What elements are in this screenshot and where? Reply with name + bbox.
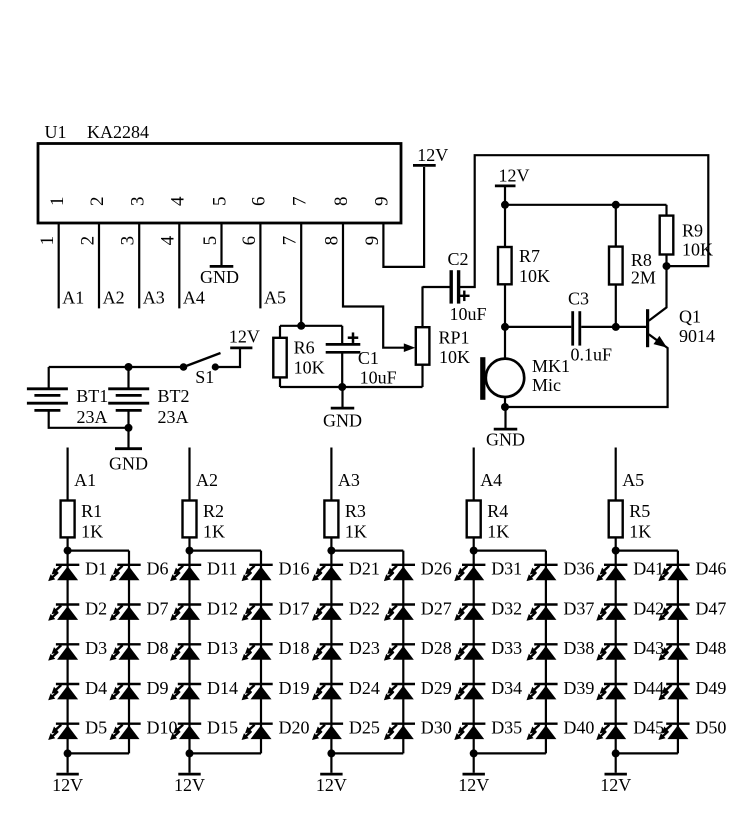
label R1 value 1K (81, 521, 103, 541)
svg-text:R9: R9 (682, 221, 703, 241)
label D32 (491, 598, 522, 618)
svg-text:D34: D34 (491, 678, 522, 698)
label D28 (421, 638, 452, 658)
junction R2 branches top (186, 547, 194, 555)
wire node A3 array (330, 448, 332, 501)
svg-text:D40: D40 (563, 718, 594, 738)
label R7 value 10K (519, 266, 550, 286)
svg-text:BT2: BT2 (158, 386, 190, 406)
wire node pin7 horizontal (280, 325, 342, 327)
junction branches bottom group 2 (186, 749, 194, 757)
svg-text:10K: 10K (439, 347, 470, 367)
label R6 value 10K (294, 358, 325, 378)
resistor R6 bottom lead (279, 377, 281, 387)
pin number 5 inside U1 (210, 197, 231, 207)
junction branches bottom group 5 (612, 749, 620, 757)
wire branch top group 3 (331, 549, 403, 551)
junction pin7 node (297, 322, 305, 330)
node A1 array label (74, 470, 96, 490)
svg-text:C3: C3 (568, 288, 589, 308)
svg-text:D1: D1 (85, 559, 107, 579)
svg-text:R6: R6 (294, 338, 315, 358)
svg-text:Q1: Q1 (679, 307, 701, 327)
svg-text:D15: D15 (207, 718, 238, 738)
LED D12 (170, 605, 201, 621)
label D4 (85, 678, 107, 698)
svg-text:GND: GND (109, 454, 148, 474)
wire branch top group 4 (474, 549, 546, 551)
svg-text:D21: D21 (349, 559, 380, 579)
wire left branch group 1 (66, 551, 68, 754)
svg-text:D5: D5 (85, 718, 107, 738)
wire pin 3 (138, 223, 140, 308)
svg-text:D46: D46 (695, 559, 726, 579)
svg-text:D20: D20 (279, 718, 310, 738)
svg-text:D19: D19 (279, 678, 310, 698)
node A5 (264, 287, 286, 307)
label R4 (487, 501, 508, 521)
svg-text:MK1: MK1 (532, 356, 570, 376)
svg-text:D39: D39 (563, 678, 594, 698)
svg-text:23A: 23A (158, 407, 189, 427)
pin number 6 inside U1 (249, 197, 270, 207)
label R3 (345, 501, 366, 521)
transistor Q1 collector (649, 266, 667, 321)
label R9 (682, 221, 703, 241)
wire right branch group 5 (677, 551, 679, 754)
LED D28 (384, 644, 415, 660)
label BT2 value 23A (158, 407, 189, 427)
svg-text:3: 3 (118, 236, 139, 246)
svg-text:7: 7 (280, 236, 301, 246)
LED D25 (312, 724, 343, 740)
LED D20 (242, 724, 273, 740)
svg-text:A5: A5 (622, 470, 644, 490)
node A2 array label (196, 470, 218, 490)
svg-text:KA2284: KA2284 (87, 122, 149, 142)
pin number 9 below U1 (362, 236, 383, 246)
LED D49 (659, 684, 690, 700)
svg-text:A1: A1 (74, 470, 96, 490)
wire left branch group 2 (188, 551, 190, 754)
label D38 (563, 638, 594, 658)
resistor R8 bottom lead (615, 285, 617, 327)
label D21 (349, 559, 380, 579)
label RP1 value 10K (439, 347, 470, 367)
svg-text:4: 4 (158, 235, 179, 245)
microphone MK1 top lead (504, 327, 506, 359)
battery BT2 top lead (127, 367, 129, 388)
label D24 (349, 678, 380, 698)
LED D24 (312, 684, 343, 700)
LED D26 (384, 565, 415, 581)
pin number 4 below U1 (158, 235, 179, 245)
svg-text:D42: D42 (633, 598, 664, 618)
svg-text:R4: R4 (487, 501, 508, 521)
label R5 (629, 501, 650, 521)
svg-text:2: 2 (77, 236, 98, 246)
resistor R1 bottom lead (66, 537, 68, 550)
node A4 (183, 287, 205, 307)
label MK1 (532, 356, 570, 376)
label R5 value 1K (629, 521, 651, 541)
svg-text:BT1: BT1 (76, 386, 108, 406)
svg-text:C1: C1 (358, 348, 379, 368)
wire branch bottom group 3 (331, 752, 403, 754)
svg-text:3: 3 (127, 197, 148, 207)
LED D41 (596, 565, 627, 581)
label D13 (207, 638, 238, 658)
svg-text:U1: U1 (45, 122, 67, 142)
pin number 1 below U1 (37, 236, 58, 246)
svg-text:1: 1 (37, 236, 58, 246)
pin number 4 inside U1 (168, 196, 189, 206)
switch S1 left contact (180, 363, 188, 371)
node A5 array label (622, 470, 644, 490)
resistor R9 bottom lead (665, 255, 667, 267)
LED D29 (384, 684, 415, 700)
LED D5 (48, 724, 79, 740)
svg-text:R1: R1 (81, 501, 102, 521)
label D1 (85, 559, 107, 579)
wire 12V rail to R9 (665, 205, 667, 216)
wire pin 5 (220, 223, 222, 265)
svg-text:D45: D45 (633, 718, 664, 738)
capacitor C2 plus sign (459, 291, 470, 302)
svg-text:A3: A3 (338, 470, 360, 490)
svg-text:D6: D6 (147, 559, 169, 579)
label D23 (349, 638, 380, 658)
label D43 (633, 638, 664, 658)
label C3 value 0.1uF (571, 344, 613, 364)
svg-text:D13: D13 (207, 638, 238, 658)
pin number 3 below U1 (118, 236, 139, 246)
wire branch top group 5 (616, 549, 678, 551)
svg-text:12V: 12V (52, 775, 83, 795)
label D10 (147, 718, 178, 738)
svg-text:D4: D4 (85, 678, 107, 698)
label D50 (695, 718, 726, 738)
power 12V group 3 (316, 753, 347, 794)
svg-text:D24: D24 (349, 678, 380, 698)
LED D10 (110, 724, 141, 740)
svg-text:1K: 1K (203, 521, 225, 541)
wire battery top rail (49, 366, 184, 368)
capacitor C1 top lead (341, 326, 343, 343)
wire branch bottom group 1 (68, 752, 129, 754)
LED D16 (242, 565, 273, 581)
svg-text:D14: D14 (207, 678, 238, 698)
svg-text:D16: D16 (279, 559, 310, 579)
pin number 6 below U1 (239, 236, 260, 246)
svg-text:1K: 1K (629, 521, 651, 541)
svg-text:9: 9 (372, 197, 393, 207)
svg-text:D44: D44 (633, 678, 664, 698)
label R8 (631, 250, 652, 270)
svg-text:RP1: RP1 (439, 328, 470, 348)
ground C1 (323, 387, 362, 431)
transistor Q1 emitter arrow (654, 336, 668, 348)
resistor R9 (660, 216, 674, 255)
svg-text:2M: 2M (631, 267, 656, 287)
junction 12V R7 (501, 201, 509, 209)
LED D17 (242, 605, 273, 621)
ground mic (486, 407, 525, 450)
svg-text:D30: D30 (421, 718, 452, 738)
svg-text:D33: D33 (491, 638, 522, 658)
label D26 (421, 559, 452, 579)
capacitor C3 (573, 311, 580, 345)
label D37 (563, 598, 594, 618)
label D11 (207, 559, 237, 579)
wire left branch group 4 (473, 551, 475, 754)
label R2 value 1K (203, 521, 225, 541)
label Mic (532, 375, 561, 395)
svg-text:12V: 12V (316, 775, 347, 795)
switch S1 lever (184, 353, 221, 367)
junction battery bottom (125, 424, 133, 432)
label D41 (633, 559, 664, 579)
label D18 (279, 638, 310, 658)
svg-text:D25: D25 (349, 718, 380, 738)
resistor R5 (609, 501, 623, 538)
resistor R8 top lead (615, 205, 617, 247)
label D40 (563, 718, 594, 738)
label D44 (633, 678, 664, 698)
junction R5 branches top (612, 547, 620, 555)
svg-text:D28: D28 (421, 638, 452, 658)
LED D32 (454, 605, 485, 621)
svg-text:D36: D36 (563, 559, 594, 579)
microphone MK1 bottom lead (504, 397, 506, 407)
svg-text:1K: 1K (487, 521, 509, 541)
resistor R6 top lead (279, 326, 281, 338)
LED D43 (596, 644, 627, 660)
pin number 8 inside U1 (331, 197, 352, 207)
potentiometer RP1 top lead (421, 287, 423, 328)
wire pin 1 (58, 223, 60, 308)
svg-text:D41: D41 (633, 559, 664, 579)
wire pin 4 (178, 223, 180, 308)
LED D9 (110, 684, 141, 700)
battery BT1 (27, 389, 68, 411)
node A3 array label (338, 470, 360, 490)
svg-text:D18: D18 (279, 638, 310, 658)
svg-text:8: 8 (331, 197, 352, 207)
svg-text:Mic: Mic (532, 375, 561, 395)
svg-text:D2: D2 (85, 598, 107, 618)
label D39 (563, 678, 594, 698)
wire C3 to base (581, 326, 647, 328)
power 12V main (495, 165, 530, 205)
LED D38 (527, 644, 558, 660)
svg-text:D17: D17 (279, 598, 310, 618)
label R1 (81, 501, 102, 521)
pin number 7 below U1 (280, 236, 301, 246)
svg-text:R7: R7 (519, 246, 540, 266)
svg-text:D48: D48 (695, 638, 726, 658)
svg-text:D50: D50 (695, 718, 726, 738)
capacitor C1 (326, 344, 361, 352)
node A1 (62, 287, 84, 307)
label D31 (491, 559, 522, 579)
wire branch top group 1 (68, 549, 129, 551)
label C3 (568, 288, 589, 308)
svg-text:D8: D8 (147, 638, 169, 658)
label D8 (147, 638, 169, 658)
resistor R3 (324, 501, 338, 538)
svg-text:D37: D37 (563, 598, 594, 618)
wire RP1 top to C2 (423, 286, 450, 288)
LED D45 (596, 724, 627, 740)
potentiometer RP1 body (416, 327, 430, 365)
svg-text:10uF: 10uF (450, 304, 487, 324)
wire left branch group 5 (615, 551, 617, 754)
label R7 (519, 246, 540, 266)
battery BT2 bottom lead (127, 410, 129, 427)
wire node A5 array (615, 448, 617, 501)
LED D48 (659, 644, 690, 660)
label D25 (349, 718, 380, 738)
junction branches bottom group 1 (64, 749, 72, 757)
resistor R2 (183, 501, 197, 538)
svg-text:D38: D38 (563, 638, 594, 658)
svg-text:6: 6 (239, 236, 260, 246)
svg-text:9014: 9014 (679, 326, 715, 346)
svg-text:12V: 12V (229, 327, 260, 347)
pin number 5 below U1 (200, 236, 221, 246)
wire branch bottom group 2 (190, 752, 262, 754)
wire C2 to collector loop (460, 155, 708, 287)
wire pin 7 (300, 223, 302, 326)
pin number 3 inside U1 (127, 197, 148, 207)
label C1 value 10uF (360, 368, 397, 388)
wire right branch group 2 (260, 551, 262, 754)
node A2 (103, 287, 125, 307)
label Q1 value 9014 (679, 326, 715, 346)
svg-text:A2: A2 (196, 470, 218, 490)
transistor Q1 base bar (646, 309, 649, 347)
pin number 1 inside U1 (47, 197, 68, 207)
LED D44 (596, 684, 627, 700)
wire right branch group 4 (545, 551, 547, 754)
transistor Q1 emitter (505, 334, 668, 407)
LED D31 (454, 565, 485, 581)
pin number 2 inside U1 (87, 197, 108, 207)
battery BT1 top lead (48, 367, 50, 388)
pin number 8 below U1 (321, 236, 342, 246)
label D9 (147, 678, 169, 698)
junction mic emitter (501, 403, 509, 411)
svg-text:D29: D29 (421, 678, 452, 698)
label D12 (207, 598, 238, 618)
svg-text:2: 2 (87, 197, 108, 207)
label D2 (85, 598, 107, 618)
LED D46 (659, 565, 690, 581)
wire pin 8 (343, 223, 406, 348)
wire branch top group 2 (190, 549, 262, 551)
label D14 (207, 678, 238, 698)
svg-text:1K: 1K (345, 521, 367, 541)
resistor R4 bottom lead (473, 537, 475, 550)
svg-text:D35: D35 (491, 718, 522, 738)
LED D30 (384, 724, 415, 740)
label D20 (279, 718, 310, 738)
svg-text:A4: A4 (480, 470, 502, 490)
power 12V at pin 9 (413, 145, 448, 166)
label D3 (85, 638, 107, 658)
svg-text:12V: 12V (458, 775, 489, 795)
label D30 (421, 718, 452, 738)
wire 12V rail (505, 204, 667, 206)
battery BT1 bottom lead (49, 410, 129, 427)
svg-text:12V: 12V (174, 775, 205, 795)
LED D27 (384, 605, 415, 621)
junction R3 branches top (327, 547, 335, 555)
svg-text:D26: D26 (421, 559, 452, 579)
LED D36 (527, 565, 558, 581)
svg-text:6: 6 (249, 197, 270, 207)
label D22 (349, 598, 380, 618)
svg-text:10uF: 10uF (360, 368, 397, 388)
svg-text:D22: D22 (349, 598, 380, 618)
svg-text:0.1uF: 0.1uF (571, 344, 613, 364)
resistor R7 bottom lead (504, 284, 506, 327)
svg-text:D49: D49 (695, 678, 726, 698)
svg-text:9: 9 (362, 236, 383, 246)
label C1 (358, 348, 379, 368)
LED D14 (170, 684, 201, 700)
label R4 value 1K (487, 521, 509, 541)
svg-text:A3: A3 (143, 287, 165, 307)
resistor R6 (273, 338, 286, 378)
svg-text:1: 1 (47, 197, 68, 207)
svg-text:4: 4 (168, 196, 189, 206)
svg-text:1K: 1K (81, 521, 103, 541)
svg-text:A1: A1 (62, 287, 84, 307)
svg-text:C2: C2 (448, 249, 469, 269)
node A4 array label (480, 470, 502, 490)
wire pin 9 (383, 167, 424, 267)
label D19 (279, 678, 310, 698)
wire node A2 array (188, 448, 190, 501)
LED D34 (454, 684, 485, 700)
junction collector node (663, 262, 671, 270)
svg-text:12V: 12V (417, 145, 448, 165)
svg-text:A2: A2 (103, 287, 125, 307)
LED D1 (48, 565, 79, 581)
wire right branch group 1 (128, 551, 130, 754)
svg-text:A5: A5 (264, 287, 286, 307)
svg-text:D11: D11 (207, 559, 237, 579)
label D6 (147, 559, 169, 579)
label D36 (563, 559, 594, 579)
LED D2 (48, 605, 79, 621)
LED D6 (110, 565, 141, 581)
label D46 (695, 559, 726, 579)
junction battery top (125, 363, 133, 371)
LED D35 (454, 724, 485, 740)
resistor R7 (498, 247, 512, 284)
svg-text:GND: GND (323, 411, 362, 431)
junction R1 branches top (64, 547, 72, 555)
svg-text:D9: D9 (147, 678, 169, 698)
LED D4 (48, 684, 79, 700)
wire right branch group 3 (402, 551, 404, 754)
junction R8 base (612, 323, 620, 331)
wire pin 6 (259, 223, 261, 308)
wire base node (505, 326, 571, 328)
